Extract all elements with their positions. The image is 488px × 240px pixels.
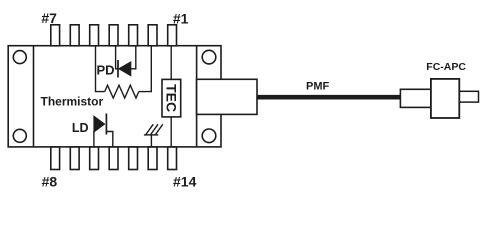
left flange divider line: [33, 46, 35, 147]
wire: ground to pin #13: [150, 135, 152, 147]
photodiode PD cathode bar: [117, 60, 119, 78]
pin #8 (bottom row leftmost): [51, 147, 60, 170]
FC-APC connector boot: [400, 89, 431, 107]
mounting hole bottom-left: [13, 129, 26, 142]
PMF fiber line: [257, 95, 401, 100]
pin #5: [90, 25, 99, 46]
FC-APC connector nose stub: [459, 91, 478, 102]
wire: thermistor right lead up to pin #2: [139, 46, 152, 92]
svg-text:FC-APC: FC-APC: [426, 61, 466, 73]
laser diode LD triangle: [94, 116, 105, 132]
chassis ground symbol: [144, 124, 163, 135]
svg-text:#1: #1: [173, 10, 189, 26]
thermistor RT1 resistor zigzag: [105, 85, 139, 98]
wire: PD cathode up to pin #4: [116, 46, 118, 69]
pin #2: [148, 25, 157, 46]
wire: LD anode down to pin #10: [93, 131, 95, 147]
svg-text:#8: #8: [42, 173, 58, 189]
pin #7 (top row leftmost): [51, 25, 60, 46]
pin #4: [109, 25, 118, 46]
pin #13: [148, 147, 157, 170]
wire: LD cathode down to pin #11: [106, 132, 112, 148]
pin #12: [129, 147, 138, 170]
wire: TEC top terminal to pin #1: [170, 46, 172, 80]
laser diode LD cathode bar: [105, 114, 107, 135]
pin #9: [70, 147, 79, 170]
wire: TEC bottom terminal to pin #14: [170, 117, 172, 147]
mounting hole top-right: [202, 50, 216, 64]
mounting hole bottom-right: [202, 129, 216, 143]
svg-text:#14: #14: [173, 173, 197, 189]
pin #11: [109, 147, 118, 170]
svg-text:PD: PD: [97, 63, 115, 78]
photodiode PD triangle: [119, 62, 131, 76]
svg-text:#7: #7: [41, 10, 57, 26]
TEC cooler box: [162, 79, 181, 117]
pin #14 (bottom row rightmost): [168, 147, 177, 170]
svg-text:LD: LD: [72, 121, 89, 135]
butterfly package case outline: [8, 46, 221, 147]
wire: PD anode up to pin #3: [131, 46, 136, 69]
pin #6: [70, 25, 79, 46]
FC-APC connector body: [431, 79, 459, 118]
svg-text:Thermistor: Thermistor: [41, 94, 104, 108]
pin #1 (top row rightmost): [168, 25, 177, 46]
svg-text:PMF: PMF: [306, 81, 330, 93]
wire: thermistor left lead up to pin #5: [96, 46, 105, 92]
mounting hole top-left: [13, 51, 26, 64]
pin #3: [129, 25, 138, 46]
right flange divider line: [196, 46, 198, 147]
fiber exit snout: [197, 79, 257, 114]
svg-text:TEC: TEC: [164, 84, 180, 112]
pin #10: [90, 147, 99, 170]
